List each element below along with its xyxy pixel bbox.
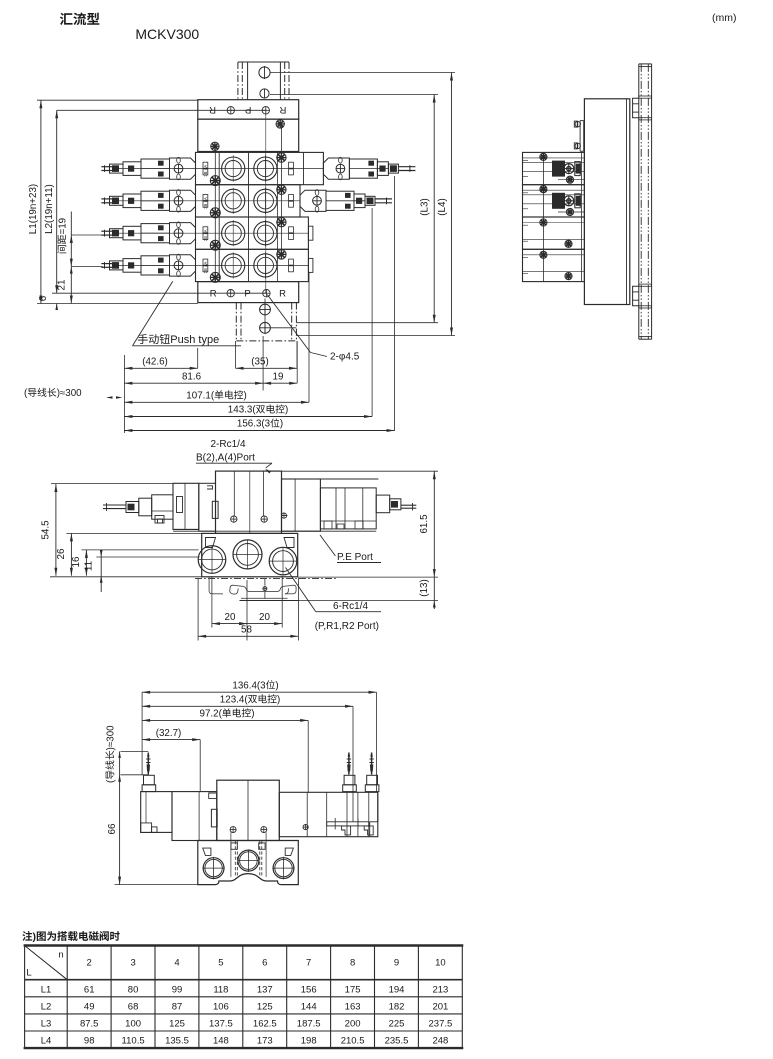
extension line bottom L4 <box>296 335 455 337</box>
table column line <box>374 946 376 1049</box>
top edge line right section <box>282 478 379 480</box>
clamp hole lower <box>260 322 271 333</box>
notch detail <box>207 486 213 489</box>
dimension 66 <box>119 751 121 884</box>
svg-text:Push type: Push type <box>170 334 219 346</box>
right cable wires <box>398 166 415 168</box>
extension line x=309 <box>308 272 310 402</box>
extension line bottom L3 <box>296 322 438 324</box>
bottom view: body outline <box>141 792 172 833</box>
svg-text:198: 198 <box>301 1036 317 1047</box>
base corner notch right (bottom view) <box>285 848 293 855</box>
slot detail (bottom view) <box>211 809 217 827</box>
bottom end plate with R P R ports <box>198 282 299 303</box>
left block bottom line <box>173 528 199 530</box>
top view: DIN-rail clamp (top, phantom) <box>238 61 289 63</box>
svg-text:125: 125 <box>169 1019 185 1030</box>
svg-text:54.5: 54.5 <box>41 520 52 540</box>
svg-text:): ) <box>244 391 247 402</box>
middle view: body bottom line <box>173 530 376 532</box>
middle view: manifold base <box>202 533 298 576</box>
port circle 2 <box>254 222 277 245</box>
svg-text:4A: 4A <box>203 165 208 170</box>
side solenoid internals (dark) <box>523 171 585 173</box>
screw left column <box>210 272 220 282</box>
svg-text:P: P <box>244 289 250 300</box>
base small tabs <box>231 843 237 849</box>
dimension L1(19n+23) <box>40 100 42 303</box>
valve end cap with manual button <box>170 190 196 211</box>
valve end cap with manual button <box>170 255 196 276</box>
center raised block <box>217 780 279 840</box>
svg-text:81.6: 81.6 <box>182 372 202 383</box>
small screw right <box>303 825 308 830</box>
svg-text:(13): (13) <box>419 579 430 596</box>
svg-text:100: 100 <box>125 1019 141 1030</box>
left solenoid foot <box>155 516 164 524</box>
manual button <box>174 196 183 205</box>
svg-text:16: 16 <box>71 556 82 567</box>
svg-text:≈300: ≈300 <box>106 725 117 747</box>
left connector housing <box>123 226 141 240</box>
screw left column <box>210 208 220 218</box>
svg-text:162.5: 162.5 <box>253 1019 277 1030</box>
svg-text:R: R <box>279 289 286 300</box>
svg-text:2B: 2B <box>203 203 208 208</box>
body section line <box>218 249 220 281</box>
svg-text:5: 5 <box>218 958 223 969</box>
right cable wires <box>375 198 392 200</box>
extension line x=372.1 (row2 wires) <box>371 208 373 417</box>
label 手动钮Push type <box>138 334 219 346</box>
solenoid body <box>141 224 170 243</box>
dims (32.7) <box>142 739 200 741</box>
svg-text:(P,R1,R2 Port): (P,R1,R2 Port) <box>315 621 379 632</box>
port circle 2 <box>254 254 277 277</box>
label leader arrow <box>266 463 272 468</box>
dimension (35) <box>236 367 298 369</box>
table column line <box>286 946 288 1049</box>
svg-text:): ) <box>251 709 254 720</box>
svg-text:87.5: 87.5 <box>80 1019 99 1030</box>
dims 16 <box>85 550 87 576</box>
svg-text:(L3): (L3) <box>420 198 431 215</box>
extension line x=394.6 (row1 wires) <box>394 176 396 431</box>
table row line <box>25 1030 463 1032</box>
svg-text:97.2(: 97.2( <box>200 709 223 720</box>
svg-text:L1: L1 <box>41 984 52 995</box>
middle view: left cable wires <box>103 504 126 506</box>
svg-text:(mm): (mm) <box>712 12 737 24</box>
table column line <box>154 946 156 1049</box>
svg-text:87: 87 <box>172 1001 183 1012</box>
right valve cap with manual button <box>300 190 305 195</box>
table column line L/n <box>66 946 68 1049</box>
svg-text:): ) <box>275 680 278 691</box>
port label B side <box>289 195 294 201</box>
dims 61.5 <box>433 471 435 600</box>
left end block foot <box>141 823 152 833</box>
port circle 1 <box>222 222 245 245</box>
svg-text:(35): (35) <box>251 357 268 368</box>
valve body row 3 <box>196 217 309 249</box>
side view: top mounting bracket <box>579 121 581 152</box>
svg-text:P: P <box>245 104 251 115</box>
svg-text:L3: L3 <box>41 1019 52 1030</box>
top clamp mounting hole (upper) <box>259 67 270 78</box>
port symbol <box>262 107 269 114</box>
rail screw <box>263 587 267 591</box>
table column line <box>198 946 200 1049</box>
svg-text:123.4(: 123.4( <box>220 695 249 706</box>
svg-text:2-φ4.5: 2-φ4.5 <box>330 352 360 363</box>
wire pin <box>348 753 350 775</box>
dims 123.4(双电控) <box>142 705 353 707</box>
screw right column <box>277 185 286 194</box>
right plug <box>388 164 398 173</box>
table column line <box>110 946 112 1049</box>
rail left bracket <box>209 577 223 594</box>
dimension spacing=19 <box>70 212 72 304</box>
right plug block 1 <box>344 775 355 785</box>
side valve internals <box>540 251 547 258</box>
svg-text:136.4(3: 136.4(3 <box>232 680 266 691</box>
svg-text:68: 68 <box>128 1001 139 1012</box>
svg-text:137.5: 137.5 <box>209 1019 233 1030</box>
screw column line right <box>280 124 282 255</box>
screw left column <box>210 176 220 186</box>
label underline <box>196 462 272 464</box>
middle view: right solenoid assembly <box>320 488 376 529</box>
svg-text:156.3(3: 156.3(3 <box>237 419 271 430</box>
left plug <box>110 261 124 270</box>
svg-text:9: 9 <box>394 958 399 969</box>
dims (13) <box>433 601 435 610</box>
extension line top plate <box>37 99 198 101</box>
svg-text:(32.7): (32.7) <box>156 728 182 739</box>
valve body row 4 <box>196 249 309 281</box>
title 汇流型 <box>60 13 99 26</box>
base corner notch right <box>284 538 294 548</box>
dims 11 <box>100 551 102 592</box>
screws on body <box>230 827 236 833</box>
side valve left edge details <box>523 257 529 259</box>
rail clip bottom <box>633 286 639 306</box>
left end plate block <box>173 483 199 529</box>
svg-text:107.1(: 107.1( <box>186 391 215 402</box>
side view: valve body row 2 <box>523 185 585 217</box>
svg-text:=19: =19 <box>58 218 69 235</box>
valve body row 2 <box>196 185 301 217</box>
middle view: DIN rail cross-section <box>195 578 338 580</box>
table right border <box>461 946 463 1049</box>
right connector housing <box>377 162 388 176</box>
right plug <box>365 196 375 205</box>
solenoid body <box>141 191 170 210</box>
hidden lines from screws into base <box>230 832 232 877</box>
svg-text:66: 66 <box>107 823 118 834</box>
left plug <box>110 164 124 173</box>
dims 97.2(单电控) <box>142 719 308 721</box>
base port circle R1 (middle) <box>233 540 262 569</box>
port circle 1 <box>222 254 245 277</box>
manual button <box>336 164 345 173</box>
right body section <box>279 792 378 836</box>
svg-text:144: 144 <box>301 1001 317 1012</box>
dimension 143.3(双电控) <box>124 416 372 418</box>
bottom view: manifold base with ports <box>198 841 298 885</box>
table row line <box>25 1013 463 1015</box>
svg-text:2B: 2B <box>203 236 208 241</box>
svg-text:MCKV300: MCKV300 <box>135 26 199 42</box>
left plug block (vertical) <box>144 775 155 785</box>
dimension line (L3) <box>433 95 435 323</box>
line through port symbols <box>57 109 266 111</box>
middle view: right valve section <box>282 479 321 531</box>
svg-text:R: R <box>210 289 217 300</box>
base corner notch left (bottom view) <box>203 848 211 855</box>
svg-text:6-Rc1/4: 6-Rc1/4 <box>333 601 368 612</box>
rail clip top <box>633 98 639 118</box>
left solenoid block <box>152 495 173 519</box>
right end step <box>377 792 379 822</box>
manual button <box>174 164 183 173</box>
svg-text:110.5: 110.5 <box>122 1036 145 1047</box>
dimension 58 <box>198 635 298 637</box>
left plug <box>110 196 124 205</box>
svg-text:4: 4 <box>174 958 179 969</box>
side solenoid internals (dark) <box>523 203 585 205</box>
side view: manifold base plate <box>584 99 629 305</box>
screw on center block <box>231 516 237 522</box>
leader line 2-phi4.5 <box>267 295 310 353</box>
side view: valve body row 4 <box>523 249 585 281</box>
svg-text:6: 6 <box>38 295 49 301</box>
wire pin <box>371 753 373 775</box>
screw on blank block <box>276 120 284 128</box>
svg-text:≈300: ≈300 <box>60 388 82 399</box>
extension line plate bottom <box>37 303 198 305</box>
svg-text:182: 182 <box>389 1001 405 1012</box>
svg-text:P.E Port: P.E Port <box>337 552 373 563</box>
side valve internals <box>540 219 547 226</box>
ext line base bottom <box>50 576 202 578</box>
base port circle right (bottom view) <box>273 858 294 879</box>
port symbol <box>263 290 270 297</box>
table column line <box>330 946 332 1049</box>
left connector block <box>139 498 152 516</box>
svg-text:175: 175 <box>345 984 361 995</box>
base port circle R2 (right) <box>269 547 297 575</box>
manual button <box>174 229 183 238</box>
dimension 21 <box>70 267 73 274</box>
solenoid body <box>141 256 170 275</box>
note 注)图为搭载电磁阀时 <box>22 931 119 943</box>
screw right column <box>277 218 286 227</box>
svg-text:213: 213 <box>432 984 448 995</box>
right connector housing <box>354 194 365 208</box>
port label A <box>203 195 208 201</box>
svg-text:194: 194 <box>389 984 405 995</box>
rail hat profile <box>230 585 296 594</box>
dimension 20 left <box>212 623 247 625</box>
port circle 2 <box>254 189 277 212</box>
extension line x=124.4 <box>123 355 125 433</box>
svg-text:163: 163 <box>345 1001 361 1012</box>
svg-text:(L4): (L4) <box>437 198 448 215</box>
svg-text:135.5: 135.5 <box>165 1036 189 1047</box>
svg-text:200: 200 <box>345 1019 361 1030</box>
dimension 19 <box>263 382 297 384</box>
table outer bottom border <box>24 1047 464 1049</box>
extension line x=197.7 (body edge) <box>197 348 199 368</box>
svg-text:11: 11 <box>84 561 95 571</box>
extension line to L3 <box>270 94 438 96</box>
row center line <box>114 232 308 234</box>
svg-text:201: 201 <box>432 1001 448 1012</box>
svg-text:21: 21 <box>57 280 68 291</box>
left connector housing <box>123 162 141 176</box>
svg-text:6: 6 <box>262 958 267 969</box>
svg-text:20: 20 <box>259 612 270 623</box>
port circle 1 <box>222 189 245 212</box>
svg-text:187.5: 187.5 <box>297 1019 321 1030</box>
screw right column <box>277 250 286 259</box>
port circle 2 <box>254 157 277 180</box>
base port circle left (bottom view) <box>203 858 224 879</box>
top clamp mounting hole (lower) <box>260 89 269 98</box>
svg-text:98: 98 <box>84 1036 95 1047</box>
svg-text:61: 61 <box>84 984 95 995</box>
svg-text:L4: L4 <box>41 1036 52 1047</box>
body section line <box>218 185 220 217</box>
svg-text:99: 99 <box>172 984 183 995</box>
screw on blank block lower-left <box>211 142 219 150</box>
side valve left edge details <box>523 224 529 226</box>
table column line <box>242 946 244 1049</box>
manifold blank block <box>198 119 299 151</box>
svg-text:8: 8 <box>350 958 355 969</box>
port symbol <box>227 107 234 114</box>
extension line x=263.1 <box>262 336 264 391</box>
port leader line left <box>233 471 235 516</box>
left plug block <box>126 502 139 513</box>
ext line x=308.2 <box>307 720 309 792</box>
dimension 81.6 <box>124 382 263 384</box>
screw left column <box>210 240 220 250</box>
wire start tick arrows <box>106 396 113 399</box>
svg-text:210.5: 210.5 <box>341 1036 365 1047</box>
ext line x=142.1 <box>141 692 143 775</box>
transition section <box>199 483 216 531</box>
table column line <box>417 946 419 1049</box>
port label B side <box>289 162 294 168</box>
svg-text:n: n <box>58 950 63 961</box>
dimension 20 right <box>247 623 282 625</box>
slot detail <box>212 501 218 518</box>
right plug block 2 <box>367 775 378 785</box>
solenoid body <box>141 159 170 178</box>
side view: DIN rail <box>638 64 640 339</box>
base corner notch left <box>206 538 216 548</box>
dimension line (L4) <box>451 73 453 336</box>
body section line <box>218 217 220 249</box>
left cable wires <box>101 263 114 265</box>
line through bottom ports <box>52 292 266 294</box>
dimension 156.3(3位) <box>124 430 394 432</box>
svg-text:137: 137 <box>257 984 273 995</box>
svg-text:225: 225 <box>389 1019 405 1030</box>
svg-text:49: 49 <box>84 1001 95 1012</box>
svg-text:L1(19n+23): L1(19n+23) <box>28 184 39 234</box>
bracket screw upper <box>575 121 580 126</box>
small screw <box>281 513 286 518</box>
base port circle P (left) <box>198 546 226 574</box>
dimension L2(19n+11) <box>56 110 58 293</box>
right solenoid feet <box>324 521 332 529</box>
svg-text:): ) <box>280 419 283 430</box>
wire pin <box>147 753 149 775</box>
left connector housing <box>123 194 141 208</box>
svg-text:106: 106 <box>213 1001 229 1012</box>
svg-text:2B: 2B <box>203 171 208 176</box>
table header bottom line <box>25 979 463 981</box>
svg-text:4A: 4A <box>203 197 208 202</box>
extension line from top clamp hole to L4 <box>270 72 455 74</box>
bottom view dims: 136.4(3位) <box>142 691 376 693</box>
rail bottom ext line <box>299 600 438 602</box>
body section line <box>218 152 220 184</box>
center line <box>249 471 251 533</box>
ext line x=353 <box>352 706 354 822</box>
svg-text:248: 248 <box>432 1036 448 1047</box>
row center line <box>114 200 300 202</box>
port symbol <box>227 290 234 297</box>
dimension 107.1(单电控) <box>124 401 309 403</box>
bracket screw lower <box>575 143 580 148</box>
svg-text:(42.6): (42.6) <box>142 357 168 368</box>
svg-text:2-Rc1/4: 2-Rc1/4 <box>210 439 245 450</box>
svg-text:7: 7 <box>306 958 311 969</box>
row center line <box>114 264 308 266</box>
svg-text:118: 118 <box>213 984 228 995</box>
dims 26 <box>70 533 72 575</box>
wire extension row4 <box>71 266 103 268</box>
svg-text:148: 148 <box>213 1036 229 1047</box>
middle view: center valve block <box>216 471 282 533</box>
svg-text:3: 3 <box>130 958 135 969</box>
rail bottom lines <box>241 597 288 599</box>
clamp hole upper <box>260 304 271 315</box>
wire extension row3 <box>71 234 103 236</box>
side valve left edge details <box>523 160 529 162</box>
right valve cap with manual button <box>323 158 328 163</box>
body mid section <box>172 792 217 841</box>
P port column center line <box>265 110 267 293</box>
mounting strip <box>327 822 369 826</box>
svg-text:237.5: 237.5 <box>429 1019 453 1030</box>
svg-text:143.3(: 143.3( <box>228 405 257 416</box>
left cable wires <box>101 166 114 168</box>
manual button <box>174 261 183 270</box>
side view: valve body row 1 <box>523 152 585 184</box>
top end plate with R P R ports <box>198 100 299 119</box>
ext line solenoid top <box>51 483 173 485</box>
ext line x=376.5 <box>376 692 378 792</box>
svg-text:61.5: 61.5 <box>419 514 430 534</box>
middle view bottom dims: ext lines <box>197 578 199 641</box>
port label B side <box>289 227 294 233</box>
